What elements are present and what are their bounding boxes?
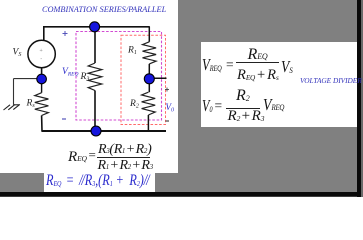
- voltage source VS circle: [28, 40, 55, 67]
- wire left vertical (top wire to source): [43, 27, 45, 41]
- svg-text:V0: V0: [166, 102, 175, 114]
- bottom equation REQ = R3(R1+R2)/(R1+R2+R3): [68, 150, 87, 165]
- blue equation REQ = ||R3,(R1 + R2)||: [46, 173, 150, 189]
- ground symbol: [4, 104, 20, 110]
- wire R3 bottom lead: [94, 91, 96, 132]
- svg-text:+: +: [40, 48, 43, 54]
- wire bottom horizontal: [42, 130, 166, 132]
- node below source: [37, 74, 47, 84]
- wire R1 to node: [148, 64, 150, 80]
- wire RS top lead: [41, 83, 43, 93]
- svg-text:Rs: Rs: [26, 99, 36, 110]
- node bottom: [91, 126, 101, 136]
- gray block bottom-left: [0, 173, 44, 193]
- node top (junction of source, R3, right branch): [90, 22, 100, 32]
- wire R2 bottom lead: [147, 115, 149, 131]
- resistor R2: [142, 92, 156, 115]
- label VREQ minus mark: [62, 118, 66, 120]
- wire right branch top (down from top wire): [148, 27, 150, 42]
- black right border line: [357, 0, 361, 197]
- resistor R1: [143, 42, 157, 64]
- wire R3 top lead: [94, 27, 96, 63]
- dark gray bottom edge row: [0, 196, 363, 197]
- VOLTAGE DIVIDER label: [300, 76, 362, 85]
- gray background right region: [178, 0, 358, 197]
- wire source bottom to node: [41, 68, 43, 79]
- wire ground horizontal: [14, 78, 42, 80]
- label VREQ plus mark: [63, 31, 68, 36]
- equation 2: V0 = R2/(R2+R3) VREQ: [202, 97, 212, 114]
- svg-text:VS: VS: [13, 48, 22, 59]
- node right branch middle: [144, 74, 154, 84]
- white equations panel: [201, 42, 357, 127]
- title COMBINATION SERIES/PARALLEL: [42, 5, 262, 14]
- resistor RS: [35, 93, 49, 116]
- svg-text:R2: R2: [129, 99, 139, 110]
- equation 1: VREQ = REQ/(REQ+Rs) VS: [202, 56, 222, 73]
- wire top horizontal: [43, 26, 150, 28]
- black bottom border band: [0, 192, 363, 196]
- svg-text:-: -: [40, 57, 42, 63]
- wire RS bottom lead + bottom-left corner: [42, 116, 43, 132]
- svg-text:R1: R1: [127, 46, 137, 57]
- label V0 plus mark: [165, 88, 169, 92]
- node stub wire (V0 +): [149, 77, 166, 79]
- magenta dashed box (REQ region): [76, 32, 162, 121]
- gray strip right of black line: [361, 0, 363, 197]
- red dashed box (R1+R2 branch): [121, 35, 166, 124]
- resistor R3: [88, 63, 102, 91]
- wire ground vertical: [13, 79, 15, 105]
- wire node to R2: [148, 80, 150, 93]
- gray block bottom-middle: [155, 173, 179, 193]
- label V0 minus mark: [166, 120, 170, 122]
